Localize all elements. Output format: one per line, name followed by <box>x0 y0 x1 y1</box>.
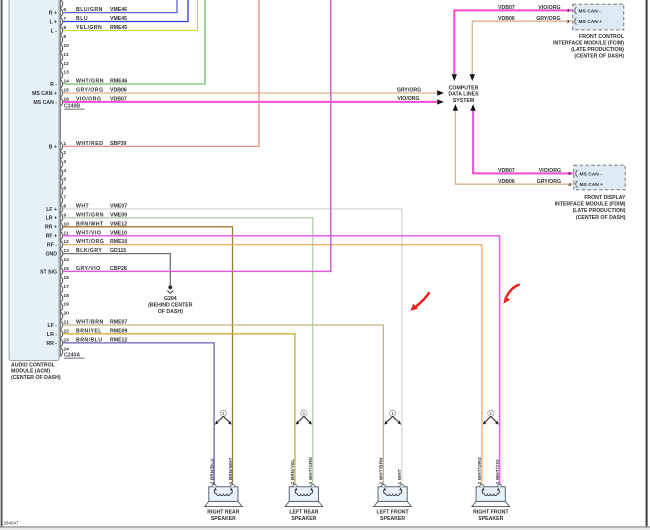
twisted pair symbol left rear <box>296 410 312 424</box>
connector C240A pin 11 <box>46 230 128 240</box>
svg-text:24: 24 <box>63 346 69 352</box>
connector C240A pin 23 <box>46 338 127 348</box>
connector FDIM pin5 bracket <box>576 170 578 177</box>
connector C240B pin 12 <box>61 61 70 71</box>
connector C240A pin 2 <box>61 150 67 160</box>
svg-text:2: 2 <box>63 150 66 156</box>
module FCIM box <box>573 4 624 30</box>
svg-text:SPEAKER: SPEAKER <box>478 516 503 522</box>
svg-text:2 WHT/BRN: 2 WHT/BRN <box>379 457 384 484</box>
svg-text:VDB07: VDB07 <box>498 168 515 174</box>
svg-text:B +: B + <box>49 144 57 150</box>
annotation red arrow 2 <box>503 285 518 304</box>
connector line C240 <box>59 0 61 357</box>
connector C240B pin 8 <box>51 25 128 34</box>
wire C240A pin11 WHT/VIO VME10 <box>63 236 500 487</box>
connector C240A pin 24 <box>61 346 70 356</box>
svg-text:SPEAKER: SPEAKER <box>211 516 236 522</box>
svg-text:SPEAKER: SPEAKER <box>380 516 405 522</box>
label VDB07 VIO/ORG 4 <box>498 5 570 14</box>
svg-text:MS CAN +: MS CAN + <box>32 91 57 97</box>
speaker left front <box>374 485 412 507</box>
svg-text:3: 3 <box>567 19 570 25</box>
connector C240B pin 5 <box>61 0 63 8</box>
svg-text:FRONT DISPLAY: FRONT DISPLAY <box>584 195 626 201</box>
svg-text:3: 3 <box>63 159 66 165</box>
connector C240A pin 21 <box>47 320 127 330</box>
connector C240B pin 10 <box>61 43 70 53</box>
svg-text:COMPUTER: COMPUTER <box>449 86 479 92</box>
connector C240A pin 22 <box>47 329 128 339</box>
svg-text:G204: G204 <box>164 296 177 302</box>
svg-text:13: 13 <box>63 70 69 76</box>
wire C240A pin12 WHT/ORG RME10 <box>63 245 482 487</box>
svg-text:19: 19 <box>63 302 69 308</box>
arrow right MS CAN- into CDLS <box>437 99 444 104</box>
svg-text:(CENTER OF DASH): (CENTER OF DASH) <box>576 215 626 221</box>
wire FDIM VDB06 GRY/ORG (pin4) <box>455 111 574 185</box>
svg-text:MS CAN -: MS CAN - <box>580 171 603 177</box>
connector C240A label <box>64 353 85 359</box>
svg-text:1 WHT: 1 WHT <box>397 469 402 484</box>
connector C240A pin 19 <box>61 302 70 312</box>
connector C240A pin 13 <box>45 248 126 258</box>
svg-text:INTERFACE MODULE (FDIM): INTERFACE MODULE (FDIM) <box>555 202 626 208</box>
connector C240B pin 9 <box>61 34 67 44</box>
svg-text:VIO/ORG: VIO/ORG <box>397 96 419 102</box>
svg-text:20: 20 <box>63 311 69 317</box>
twisted pair symbol left front <box>384 410 401 424</box>
connector C240A pin 17 <box>61 284 70 294</box>
svg-text:LEFT REAR: LEFT REAR <box>289 510 318 516</box>
module FCIM caption <box>553 34 625 60</box>
label speaker left front caption <box>376 510 409 522</box>
svg-text:2 BRN/BLU: 2 BRN/BLU <box>209 458 214 484</box>
wire C240A pin9 WHT/GRN VME09 <box>63 218 313 486</box>
svg-text:GRY/ORG: GRY/ORG <box>397 87 421 93</box>
label speaker right front caption <box>473 510 509 522</box>
wire FCIM VDB07 VIO/ORG (pin4) <box>454 10 573 74</box>
svg-text:RIGHT FRONT: RIGHT FRONT <box>473 510 509 516</box>
svg-text:R -: R - <box>50 82 57 88</box>
svg-text:LEFT FRONT: LEFT FRONT <box>376 510 409 516</box>
connector C240A pin 5 <box>61 177 67 187</box>
svg-text:5: 5 <box>568 171 571 177</box>
svg-text:11: 11 <box>63 52 68 58</box>
svg-text:VDB06: VDB06 <box>498 16 515 22</box>
annotation red arrow 1 <box>410 293 429 311</box>
wire C240A pin22 BRN/YEL RME09 <box>63 334 295 486</box>
svg-text:6: 6 <box>63 186 66 192</box>
svg-text:7: 7 <box>63 195 66 201</box>
connector C240B pin 14 <box>50 79 127 89</box>
connector C240A pin 12 <box>47 239 128 249</box>
module ACM box <box>9 0 59 361</box>
arrow down FCIM VIO/ORG into CDLS <box>452 74 457 81</box>
wire C240B pin14 WHT/GRN RME46 <box>63 0 205 84</box>
svg-text:LF -: LF - <box>47 323 57 329</box>
connector C240B label <box>64 104 85 110</box>
svg-text:1 BRN/WHT: 1 BRN/WHT <box>228 457 233 484</box>
wire C240A pin23 BRN/BLU RME12 <box>63 343 214 486</box>
svg-text:ST SIG: ST SIG <box>40 269 57 275</box>
ground G204 <box>148 285 193 315</box>
module ACM label <box>11 363 61 381</box>
arrow down FCIM GRY/ORG into CDLS <box>470 74 475 81</box>
svg-text:16: 16 <box>63 275 69 281</box>
connector C240A pin 4 <box>61 168 67 178</box>
svg-text:VIO/ORG: VIO/ORG <box>538 5 560 11</box>
connector C240A pin 8 <box>46 204 127 214</box>
svg-text:AUDIO CONTROL: AUDIO CONTROL <box>11 363 56 369</box>
svg-text:RF +: RF + <box>46 234 57 240</box>
arrow up FDIM GRY/ORG into CDLS <box>453 104 458 111</box>
connector C240A pin 6 <box>61 186 67 196</box>
twisted pair symbol right rear <box>215 410 232 424</box>
connector C240A pin 15 <box>40 266 127 276</box>
connector FCIM pin3 bracket <box>575 18 577 25</box>
svg-text:4: 4 <box>63 168 66 174</box>
label speaker right rear caption <box>207 510 240 522</box>
svg-text:LR +: LR + <box>46 216 57 222</box>
svg-text:MS CAN -: MS CAN - <box>33 100 57 106</box>
svg-text:1 WHT/GRN: 1 WHT/GRN <box>308 457 313 484</box>
svg-text:C240A: C240A <box>64 353 80 359</box>
connector C240B pin 15 <box>32 88 127 98</box>
svg-text:MS CAN +: MS CAN + <box>580 182 604 188</box>
connector C240B pin 6 <box>49 7 127 17</box>
svg-text:2 BRN/YEL: 2 BRN/YEL <box>290 459 295 485</box>
connector C240B pin 11 <box>61 52 69 62</box>
svg-text:4: 4 <box>568 182 571 188</box>
svg-text:284047: 284047 <box>4 521 20 526</box>
connector C240A pin 20 <box>61 311 70 321</box>
label VDB06 GRY/ORG 3 <box>498 16 570 25</box>
svg-text:MS CAN +: MS CAN + <box>579 19 603 25</box>
svg-text:FRONT CONTROL: FRONT CONTROL <box>579 34 625 40</box>
svg-text:RIGHT REAR: RIGHT REAR <box>207 510 240 516</box>
bottom page border <box>0 526 650 528</box>
wire C240A pin10 BRN/WHT VME12 <box>63 227 233 486</box>
svg-text:(BEHIND CENTER: (BEHIND CENTER <box>148 302 193 308</box>
svg-text:2 WHT/ORG: 2 WHT/ORG <box>477 456 482 484</box>
connector C240A pin 16 <box>61 275 70 285</box>
svg-text:LF +: LF + <box>46 207 57 213</box>
right page border <box>646 0 648 530</box>
svg-text:LR -: LR - <box>47 332 57 338</box>
connector FCIM pin4 bracket <box>575 7 577 14</box>
connector C240B pin 16 <box>33 97 126 107</box>
connector C240A pin 3 <box>61 159 67 169</box>
svg-text:R +: R + <box>49 11 57 17</box>
svg-text:(CENTER OF DASH): (CENTER OF DASH) <box>574 54 624 60</box>
svg-text:10: 10 <box>63 43 69 49</box>
wire C240A pin8 WHT VME07 <box>63 209 402 486</box>
wire C240B pin6 BLU/GRN VME46 <box>63 0 177 13</box>
svg-text:18: 18 <box>63 293 69 299</box>
svg-text:GRY/ORG: GRY/ORG <box>537 179 561 185</box>
svg-text:(LATE PRODUCTION): (LATE PRODUCTION) <box>571 47 624 53</box>
svg-text:5: 5 <box>63 177 66 183</box>
svg-text:C240B: C240B <box>64 104 80 110</box>
connector FDIM pin4 bracket <box>576 181 578 188</box>
svg-text:4: 4 <box>567 8 570 14</box>
svg-text:INTERFACE MODULE (FCIM): INTERFACE MODULE (FCIM) <box>553 40 624 46</box>
svg-text:(CENTER OF DASH): (CENTER OF DASH) <box>11 375 61 381</box>
svg-text:GRY/ORG: GRY/ORG <box>536 16 560 22</box>
svg-text:GND: GND <box>45 252 57 258</box>
svg-text:14: 14 <box>63 257 69 263</box>
wire C240B pin8 YEL/GRN RME45 <box>63 0 198 31</box>
wire FDIM VDB07 VIO/ORG (pin5) <box>473 111 574 174</box>
speaker right rear <box>205 485 243 507</box>
connector C240B pin 7 <box>49 16 127 26</box>
twisted pair symbol right front <box>483 410 499 424</box>
speaker right front <box>472 485 510 507</box>
wire C240B pin16 VIO/ORG VDB07 (MS CAN-) <box>63 101 437 103</box>
label VDB06 GRY/ORG 4 <box>498 179 571 188</box>
svg-text:SPEAKER: SPEAKER <box>291 516 316 522</box>
left page border <box>1 0 3 530</box>
connector C240A pin 10 <box>45 221 127 231</box>
svg-text:MS CAN -: MS CAN - <box>579 8 602 14</box>
wire C240A pin21 WHT/BRN RME07 <box>63 325 383 486</box>
svg-text:RR +: RR + <box>45 225 57 231</box>
wire C240A pin15 GRY/VIO CBP28 (ST SIG) <box>63 0 331 271</box>
svg-text:1 WHT/VIO: 1 WHT/VIO <box>495 459 500 484</box>
svg-text:(LATE PRODUCTION): (LATE PRODUCTION) <box>573 208 626 214</box>
svg-text:RF -: RF - <box>47 243 57 249</box>
label speaker left rear caption <box>289 510 318 522</box>
svg-text:RR -: RR - <box>46 341 57 347</box>
svg-text:L -: L - <box>51 28 58 34</box>
connector C240A pin 7 <box>61 195 67 205</box>
connector C240A pin 14 <box>61 257 70 267</box>
module FDIM caption <box>555 195 626 221</box>
svg-text:OF DASH): OF DASH) <box>158 309 183 315</box>
svg-text:17: 17 <box>63 284 69 290</box>
svg-text:VIO/ORG: VIO/ORG <box>539 168 561 174</box>
connector C240A pin 18 <box>61 293 70 303</box>
label VDB07 VIO/ORG 5 <box>498 168 571 177</box>
arrow right MS CAN+ into CDLS <box>437 90 444 95</box>
connector C240A pin 9 <box>46 212 128 222</box>
svg-text:VDB07: VDB07 <box>498 5 515 11</box>
node COMPUTER DATA LINES SYSTEM text <box>448 86 479 104</box>
wire C240B pin7 BLU VME45 <box>63 0 188 22</box>
speaker left rear <box>285 485 323 507</box>
wire FCIM VDB06 GRY/ORG (pin3) <box>472 21 573 74</box>
connector C240A pin 1 <box>49 141 127 151</box>
svg-text:VDB06: VDB06 <box>498 179 515 185</box>
svg-text:9: 9 <box>63 34 66 40</box>
arrow up FDIM VIO/ORG into CDLS <box>470 104 475 111</box>
wire C240A pin1 WHT/RED SBP39 <box>63 0 259 146</box>
svg-text:L +: L + <box>49 19 57 25</box>
module FDIM box <box>574 165 625 190</box>
svg-text:SYSTEM: SYSTEM <box>453 98 474 104</box>
svg-text:MODULE (ACM): MODULE (ACM) <box>11 369 50 375</box>
connector C240B pin 13 <box>61 70 70 80</box>
wire C240B pin15 GRY/ORG VDB06 (MS CAN+) <box>63 92 437 94</box>
wire C240A pin13 BLK/GRY GD115 to ground <box>63 254 170 286</box>
svg-text:12: 12 <box>63 61 69 67</box>
svg-text:DATA LINES: DATA LINES <box>448 92 479 98</box>
